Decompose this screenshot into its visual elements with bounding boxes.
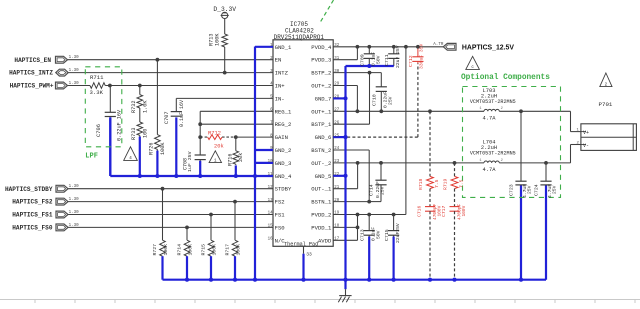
svg-text:0.1uF 16V: 0.1uF 16V [179,100,185,127]
svg-text:C717: C717 [441,206,447,217]
svg-text:HAPTICS_FS0: HAPTICS_FS0 [12,225,53,232]
svg-text:PVDD_2: PVDD_2 [311,212,331,219]
svg-text:BSTP_2: BSTP_2 [311,70,331,77]
svg-text:27: 27 [334,109,339,113]
svg-text:50V: 50V [376,230,382,239]
svg-text:7.5: 7.5 [434,179,440,188]
svg-text:1.30: 1.30 [69,69,80,73]
svg-text:28: 28 [334,96,339,100]
svg-text:4.7A: 4.7A [483,167,497,173]
svg-text:100K: 100K [214,33,220,46]
svg-text:29: 29 [334,83,339,87]
svg-text:R712: R712 [208,131,221,137]
svg-text:22uF25V: 22uF25V [395,223,401,243]
svg-text:25V: 25V [552,185,558,194]
svg-text:GND_6: GND_6 [315,134,332,141]
svg-text:1uF 25V: 1uF 25V [187,151,193,172]
svg-text:GND_4: GND_4 [275,173,292,180]
svg-text:FS2: FS2 [275,199,285,206]
svg-text:AVDD: AVDD [318,237,332,244]
svg-text:GND_1: GND_1 [275,44,292,51]
svg-text:100K: 100K [160,142,166,155]
svg-text:GND_2: GND_2 [275,147,292,154]
svg-text:HAPTICS_FS1: HAPTICS_FS1 [12,212,53,219]
svg-text:15: 15 [268,225,273,229]
svg-text:14: 14 [268,212,273,216]
svg-text:100K: 100K [188,244,194,256]
svg-text:7.5: 7.5 [458,179,464,188]
svg-text:V-: V- [583,143,589,149]
svg-text:BSTN_1: BSTN_1 [311,199,332,206]
svg-text:C711: C711 [384,54,390,66]
svg-text:4.7A: 4.7A [483,116,497,122]
svg-text:LPF: LPF [85,153,98,161]
svg-text:R716: R716 [228,154,234,166]
svg-text:REG_2: REG_2 [275,121,292,128]
svg-text:26: 26 [334,121,339,125]
svg-text:C724: C724 [534,184,540,196]
svg-text:OUT-_1: OUT-_1 [311,186,332,193]
svg-text:BSTN_2: BSTN_2 [311,147,331,154]
svg-text:C713: C713 [360,229,366,241]
svg-text:16: 16 [268,238,273,242]
svg-text:C706: C706 [96,124,102,137]
svg-text:25V: 25V [380,186,386,195]
svg-text:OUT+_1: OUT+_1 [311,108,332,115]
svg-text:25: 25 [334,134,339,138]
svg-text:21: 21 [334,186,339,190]
svg-text:32: 32 [334,44,339,48]
svg-text:100K: 100K [163,244,169,256]
svg-text:VCMT053T-2R2MN5: VCMT053T-2R2MN5 [470,99,516,105]
svg-text:Thermal Pad: Thermal Pad [284,242,318,248]
svg-text:HAPTICS_12.5V: HAPTICS_12.5V [462,44,514,51]
svg-text:100: 100 [143,129,149,138]
svg-text:EN: EN [275,57,282,64]
svg-text:1: 1 [479,159,481,163]
svg-text:PVDD_3: PVDD_3 [311,57,331,64]
svg-text:13: 13 [268,199,273,203]
svg-text:18: 18 [334,225,339,229]
svg-text:PVDD_4: PVDD_4 [311,44,332,51]
svg-text:2: 2 [501,159,503,163]
svg-text:33: 33 [306,252,312,258]
svg-text:C715: C715 [384,229,390,241]
svg-text:BSTP_1: BSTP_1 [311,121,332,128]
svg-text:R733: R733 [131,128,137,140]
svg-text:HAPTICS_STDBY: HAPTICS_STDBY [5,186,53,193]
svg-text:A.TR: A.TR [433,43,444,47]
svg-text:OUT-_2: OUT-_2 [311,160,331,167]
svg-text:100K: 100K [236,244,242,256]
svg-text:25V: 25V [527,185,533,194]
svg-text:R714: R714 [177,244,183,256]
svg-text:R718: R718 [418,179,424,190]
svg-text:C712: C712 [408,55,414,67]
svg-text:100K: 100K [212,244,218,256]
svg-text:1.30: 1.30 [69,211,80,215]
svg-text:3.3K: 3.3K [90,89,104,96]
svg-text:R727: R727 [152,244,158,256]
svg-text:0.22uF 16V: 0.22uF 16V [117,109,123,141]
svg-text:1.30: 1.30 [69,224,80,228]
svg-text:R726: R726 [149,143,155,155]
svg-text:R732: R732 [131,101,137,113]
svg-text:C714: C714 [369,184,375,196]
svg-text:GAIN: GAIN [275,134,288,141]
svg-text:10: 10 [268,160,273,164]
svg-text:PVDD_1: PVDD_1 [311,224,332,231]
svg-text:1.30: 1.30 [69,56,80,60]
svg-text:REG_1: REG_1 [275,108,292,115]
svg-text:50V: 50V [376,55,382,64]
svg-text:C707: C707 [164,112,170,124]
svg-text:20k: 20k [214,143,224,149]
svg-text:1.30: 1.30 [69,185,80,189]
svg-text:C709: C709 [360,54,366,66]
svg-text:20k: 20k [238,153,244,162]
svg-text:HAPTICS_EN: HAPTICS_EN [14,57,51,64]
svg-text:1.30: 1.30 [69,82,80,86]
svg-text:V+: V+ [583,130,589,136]
svg-text:P701: P701 [599,101,613,108]
svg-text:330uF 35V: 330uF 35V [419,43,425,69]
svg-text:22uF 25V: 22uF 25V [395,45,401,68]
svg-text:GND_3: GND_3 [275,160,292,167]
svg-text:INTZ: INTZ [275,70,289,77]
svg-text:GND_7: GND_7 [315,95,332,102]
svg-text:VCMT053T-2R2MN5: VCMT053T-2R2MN5 [470,151,516,157]
svg-text:OUT+_2: OUT+_2 [311,83,331,90]
svg-text:1.0K: 1.0K [143,100,149,113]
svg-text:23: 23 [334,160,339,164]
svg-text:Optional Components: Optional Components [461,74,550,82]
svg-text:22: 22 [334,173,339,177]
svg-text:IN+: IN+ [275,83,286,90]
svg-text:1.30: 1.30 [69,198,80,202]
svg-text:R719: R719 [443,179,449,190]
svg-text:DRV2511QDAPRQ1: DRV2511QDAPRQ1 [274,34,325,41]
svg-text:C710: C710 [372,94,378,106]
svg-text:FS0: FS0 [275,224,286,231]
svg-text:1: 1 [479,107,481,111]
svg-text:R717: R717 [225,244,231,256]
svg-text:11: 11 [268,173,273,177]
svg-text:25V: 25V [388,96,394,105]
svg-text:30: 30 [334,70,339,74]
svg-text:100V: 100V [461,205,467,216]
svg-text:24: 24 [334,147,339,151]
svg-text:C716: C716 [417,206,423,217]
svg-text:R711: R711 [90,74,104,81]
svg-text:HAPTICS_PWM+: HAPTICS_PWM+ [10,83,54,90]
svg-text:C723: C723 [509,184,515,196]
svg-text:HAPTICS_INTZ: HAPTICS_INTZ [9,70,53,77]
svg-text:HAPTICS_FS2: HAPTICS_FS2 [12,199,53,206]
svg-text:IN-: IN- [275,95,285,102]
svg-text:31: 31 [334,57,339,61]
svg-text:R715: R715 [201,244,207,256]
svg-text:GND_5: GND_5 [315,173,332,180]
svg-text:20: 20 [334,199,339,203]
svg-text:17: 17 [334,238,339,242]
svg-text:2: 2 [501,107,503,111]
svg-text:19: 19 [334,212,339,216]
svg-text:FS1: FS1 [275,212,286,219]
svg-text:12: 12 [268,186,273,190]
svg-text:STDBY: STDBY [275,186,292,193]
